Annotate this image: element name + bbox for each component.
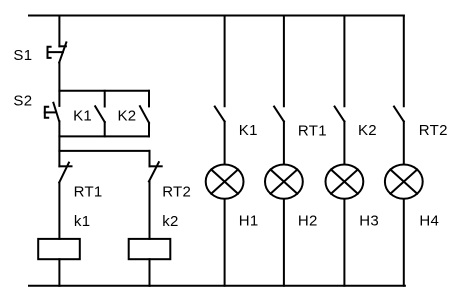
svg-text:RT2: RT2 [162,184,191,201]
wire contact to lamp H3 [343,122,345,165]
wire lamp H1 to bottom rail [224,199,226,286]
svg-text:RT1: RT1 [74,183,103,200]
svg-text:H1: H1 [239,212,259,229]
wire parallel block top [59,90,149,92]
wire branch 1 from top rail [224,16,226,107]
wire lamp H2 to bottom rail [283,199,285,286]
svg-text:S2: S2 [13,92,32,109]
wire RT2 to coil k2 [149,182,151,239]
wire contact to lamp H2 [283,122,285,165]
svg-text:K1: K1 [239,122,258,139]
svg-text:K2: K2 [358,122,377,139]
wire RT2 branch terminal [149,151,151,166]
svg-text:k2: k2 [162,213,178,230]
svg-text:H4: H4 [419,212,439,229]
wire coil k2 to bottom rail [149,259,151,286]
wire from S2 down through junction to RT1 [58,121,60,166]
lamp H2 [265,165,303,199]
lamp H4 [385,165,423,199]
contact K2 (NO, lamp branch 3) [335,107,345,122]
wire branch 3 from top rail [343,16,345,107]
wire parallel block bottom [59,135,149,137]
wire from top rail down to S1 [58,16,60,47]
wire branch 2 from top rail [283,16,285,107]
contact K1 (NO, parallel with S2) [95,91,105,137]
wire branch 4 from top rail [403,16,405,107]
contact RT1 (NO, lamp branch 2) [274,107,284,122]
wire bottom return rail [29,285,405,287]
svg-text:RT2: RT2 [419,122,448,139]
contact RT2 (NC thermal relay contact) [149,162,162,181]
pushbutton S2 (NO contact) [45,103,59,122]
svg-text:K1: K1 [73,107,92,124]
wire contact to lamp H1 [224,122,226,165]
wire lamp H3 to bottom rail [343,199,345,286]
contact K1 (NO, lamp branch 1) [215,107,225,122]
pushbutton S1 (NC contact) [48,42,67,62]
svg-text:H2: H2 [298,212,318,229]
wire RT1 to coil k1 [58,183,60,239]
wire from S1 down to S2 [58,63,60,106]
coil k1 [38,239,80,259]
wire contact to lamp H4 [403,122,405,165]
svg-text:RT1: RT1 [298,122,327,139]
wire top supply rail [29,15,404,17]
contact RT1 (NC thermal relay contact) [59,163,71,183]
contact RT2 (NO, lamp branch 4) [394,107,404,122]
coil k2 [129,239,171,259]
svg-text:H3: H3 [359,212,379,229]
lamp H3 [326,165,364,199]
svg-text:K2: K2 [118,107,137,124]
wire lamp H4 to bottom rail [403,199,405,286]
lamp H1 [206,165,244,199]
wire branch split to RT2 column [59,150,149,152]
contact K2 (NO, parallel with S2) [140,91,149,137]
svg-text:k1: k1 [74,213,90,230]
wire coil k1 to bottom rail [58,259,60,286]
svg-text:S1: S1 [13,47,32,64]
